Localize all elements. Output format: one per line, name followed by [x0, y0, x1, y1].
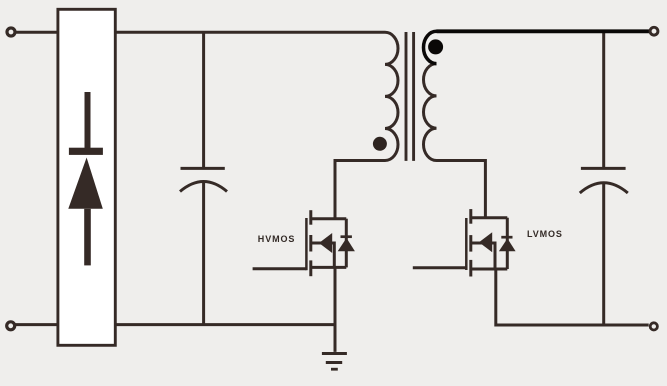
svg-text:HVMOS: HVMOS: [258, 234, 296, 244]
svg-text:LVMOS: LVMOS: [527, 229, 563, 239]
